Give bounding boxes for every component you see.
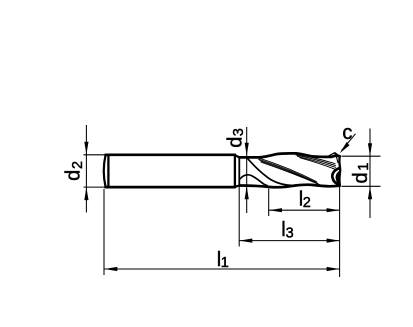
svg-text:c: c — [342, 122, 352, 144]
svg-text:2: 2 — [70, 161, 86, 169]
svg-text:2: 2 — [303, 195, 311, 211]
svg-text:3: 3 — [286, 225, 294, 241]
svg-text:3: 3 — [231, 128, 247, 136]
svg-text:1: 1 — [356, 163, 372, 171]
svg-text:d: d — [350, 172, 372, 183]
svg-text:d: d — [225, 137, 247, 148]
svg-text:d: d — [63, 170, 85, 181]
svg-text:1: 1 — [221, 255, 229, 271]
